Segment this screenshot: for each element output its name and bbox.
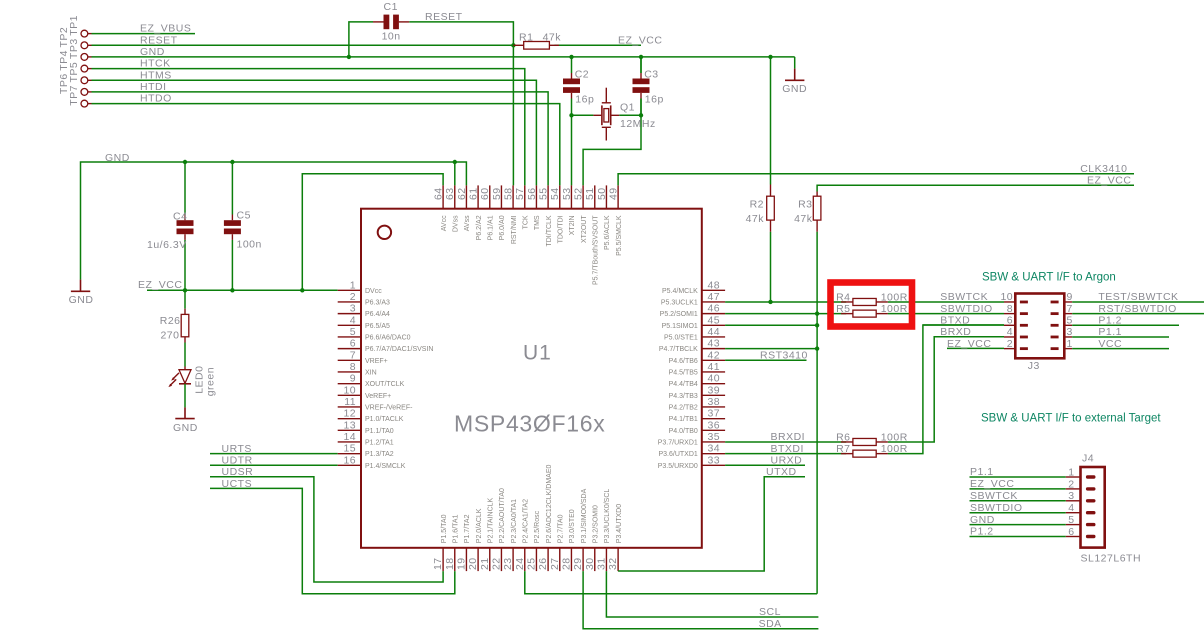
- wire R7 up to BTXD: [888, 325, 1004, 454]
- pin 10 (VeREF+): [338, 384, 392, 400]
- pin 59 (P6.0/A0): [491, 185, 506, 240]
- junction: [453, 160, 457, 164]
- pin 11 (VREF-/VeREF-): [338, 396, 413, 412]
- capacitor C4 1u/6.3V: [147, 162, 194, 290]
- svg-text:EZ_VCC: EZ_VCC: [1087, 175, 1131, 187]
- capacitor C1: [373, 1, 409, 43]
- highlight box (red): [831, 283, 913, 327]
- svg-text:SBWTCK: SBWTCK: [970, 490, 1018, 502]
- svg-text:P3.4/UTXD0: P3.4/UTXD0: [616, 504, 623, 543]
- svg-text:XIN: XIN: [365, 370, 377, 377]
- wire net UDSR to pin17: [210, 477, 443, 582]
- svg-text:P5.7/TBouth/SVSOUT: P5.7/TBouth/SVSOUT: [593, 215, 600, 285]
- svg-text:P6.2/A2: P6.2/A2: [476, 215, 483, 240]
- svg-text:P2.6/ADC12CLK/DMAE0: P2.6/ADC12CLK/DMAE0: [546, 465, 553, 544]
- svg-text:RESET: RESET: [425, 11, 463, 23]
- pin 24 (P2.4/CA1/TA2): [514, 499, 530, 571]
- svg-text:P2.2/CAOUT/TA0: P2.2/CAOUT/TA0: [499, 488, 506, 543]
- svg-text:39: 39: [708, 384, 720, 396]
- svg-text:12MHz: 12MHz: [620, 118, 656, 130]
- wire net P1.1: [1072, 336, 1169, 338]
- svg-text:C5: C5: [237, 209, 251, 221]
- wire pin43 row: [725, 348, 817, 350]
- junction: [511, 43, 515, 47]
- svg-text:P4.3/TB3: P4.3/TB3: [669, 393, 698, 400]
- svg-text:P6.0/A0: P6.0/A0: [499, 215, 506, 240]
- junction: [300, 288, 304, 292]
- svg-text:8: 8: [1007, 303, 1013, 315]
- pin 16 (P1.4/SMCLK): [338, 454, 406, 470]
- pin 46 (P5.2/SOMI1): [660, 303, 725, 319]
- pin 48 (P5.4/MCLK): [662, 279, 725, 295]
- svg-text:P3.2/SOMI0: P3.2/SOMI0: [593, 505, 600, 543]
- wire net RST/SBWTDIO: [1072, 313, 1204, 315]
- svg-text:19: 19: [455, 558, 467, 570]
- svg-text:HTCK: HTCK: [140, 58, 171, 70]
- pin 38 (P4.2/TB2): [669, 396, 725, 412]
- svg-text:EZ_VCC: EZ_VCC: [947, 338, 991, 350]
- junction: [768, 55, 772, 59]
- svg-text:P1.2: P1.2: [1098, 315, 1122, 327]
- svg-text:P4.1/TB1: P4.1/TB1: [669, 416, 698, 423]
- svg-text:6: 6: [1068, 526, 1074, 538]
- svg-text:16p: 16p: [575, 94, 594, 106]
- wire DVss branch pin63: [454, 162, 456, 185]
- svg-text:RESET: RESET: [140, 34, 178, 46]
- wire net SCL from pin31: [606, 571, 818, 617]
- svg-text:1: 1: [1068, 466, 1074, 478]
- wire LED to gnd: [184, 384, 186, 408]
- junction: [639, 55, 643, 59]
- wire net HTCK: [92, 69, 525, 186]
- svg-text:BRXDI: BRXDI: [771, 431, 806, 443]
- wire net P1.2: [970, 536, 1066, 538]
- svg-text:C2: C2: [575, 69, 589, 81]
- svg-text:EZ_VBUS: EZ_VBUS: [140, 23, 191, 35]
- svg-text:48: 48: [708, 279, 720, 291]
- svg-text:XT2IN: XT2IN: [569, 215, 576, 235]
- wire net RESET: [92, 44, 514, 46]
- resistor R1 47k: [513, 31, 561, 49]
- svg-text:4: 4: [1068, 502, 1074, 514]
- pin 12 (P1.0/TACLK): [338, 408, 404, 424]
- svg-text:MSP43ØF16x: MSP43ØF16x: [454, 411, 605, 437]
- wire net row pin: [725, 441, 846, 443]
- svg-text:XOUT/TCLK: XOUT/TCLK: [365, 381, 405, 388]
- svg-text:57: 57: [514, 188, 526, 200]
- svg-text:P1.2: P1.2: [970, 526, 994, 538]
- svg-text:P4.5/TB5: P4.5/TB5: [669, 370, 698, 377]
- wire net RESET (C1 to R1/pin58): [409, 22, 513, 186]
- svg-text:50: 50: [596, 188, 608, 200]
- svg-text:8: 8: [350, 361, 356, 373]
- svg-text:UTXD: UTXD: [766, 466, 797, 478]
- wire XT2IN pin53: [571, 115, 573, 185]
- wire net EZ_VCC J3: [947, 347, 1004, 349]
- svg-text:47k: 47k: [543, 31, 562, 43]
- svg-text:AVss: AVss: [464, 215, 471, 231]
- svg-text:1u/6.3V: 1u/6.3V: [147, 239, 187, 251]
- svg-text:47: 47: [708, 291, 720, 303]
- svg-text:U1: U1: [523, 342, 552, 365]
- svg-text:7: 7: [1067, 303, 1073, 315]
- svg-text:22: 22: [490, 558, 502, 570]
- svg-text:20: 20: [467, 558, 479, 570]
- pin 47 (P5.3UCLK1): [661, 291, 725, 307]
- pin 21 (P2.1/TAINCLK): [479, 497, 495, 571]
- pin 8 (XIN): [338, 361, 377, 377]
- testpoint TP5: [68, 62, 91, 84]
- pin 6 (P6.7/A7/DAC1/SVSIN): [338, 338, 434, 354]
- pin 50 (P5.6/ACLK): [596, 185, 611, 250]
- svg-text:9: 9: [350, 373, 356, 385]
- svg-text:P1.7/TA2: P1.7/TA2: [464, 514, 471, 543]
- svg-text:VCC: VCC: [1098, 338, 1122, 350]
- pin 27 (P2.7/TA0): [549, 514, 565, 571]
- svg-text:UDSR: UDSR: [222, 466, 254, 478]
- svg-text:58: 58: [503, 188, 515, 200]
- wire C1 left lead to GND rail: [349, 22, 373, 57]
- svg-text:URXD: URXD: [771, 455, 803, 467]
- resistor R2 47k: [746, 57, 775, 232]
- pin 44 (P5.0/STE1): [664, 326, 725, 342]
- testpoint TP2: [58, 27, 91, 49]
- svg-text:32: 32: [607, 558, 619, 570]
- wire net CLK3410 from pin49: [618, 174, 1134, 186]
- svg-text:GND: GND: [782, 83, 807, 95]
- svg-text:56: 56: [526, 188, 538, 200]
- svg-text:25: 25: [525, 558, 537, 570]
- svg-text:P1.1: P1.1: [970, 466, 994, 478]
- junction: [347, 55, 351, 59]
- svg-text:P1.1/TA0: P1.1/TA0: [365, 428, 394, 435]
- junction: [639, 113, 643, 117]
- svg-text:5: 5: [350, 326, 356, 338]
- svg-text:63: 63: [444, 188, 456, 200]
- svg-text:HTMS: HTMS: [140, 69, 172, 81]
- svg-text:30: 30: [584, 558, 596, 570]
- wire net TEST/SBWTCK: [1072, 301, 1204, 303]
- pin 55 (TDI/TCLK): [538, 185, 553, 246]
- capacitor C2 16p: [563, 57, 594, 115]
- pin 28 (P3.0/STE0): [560, 509, 576, 571]
- pin 32 (P3.4/UTXD0): [607, 504, 623, 571]
- wire XT2OUT to pin52: [583, 57, 641, 186]
- svg-text:31: 31: [595, 558, 607, 570]
- pin 42 (P4.6/TB6): [669, 349, 725, 365]
- pin 1 (DVcc): [338, 279, 383, 295]
- wire net HTDI: [92, 92, 549, 185]
- pin 58 (RST/NMI): [503, 185, 518, 244]
- svg-text:16p: 16p: [645, 94, 664, 106]
- svg-text:GND: GND: [69, 294, 94, 306]
- svg-text:16: 16: [344, 454, 356, 466]
- svg-text:60: 60: [479, 188, 491, 200]
- pin 14 (P1.2/TA1): [338, 431, 394, 447]
- wire net URTS to pin15: [210, 453, 338, 455]
- svg-text:P2.0/ACLK: P2.0/ACLK: [476, 508, 483, 543]
- wire net UDTR to pin16: [210, 464, 338, 466]
- svg-text:62: 62: [456, 188, 468, 200]
- svg-text:10n: 10n: [382, 30, 401, 42]
- svg-text:SBW & UART I/F to external Tar: SBW & UART I/F to external Target: [981, 413, 1161, 425]
- svg-text:SL127L6TH: SL127L6TH: [1081, 552, 1142, 564]
- pin 41 (P4.5/TB5): [669, 361, 725, 377]
- svg-text:41: 41: [708, 361, 720, 373]
- svg-text:C1: C1: [384, 1, 398, 13]
- pin 43 (P4.7/TBCLK): [659, 338, 725, 354]
- wire net P1.1: [970, 476, 1066, 478]
- svg-text:SBWTCK: SBWTCK: [940, 291, 988, 303]
- wire net VCC: [1072, 348, 1169, 350]
- pin 7 (VREF+): [338, 349, 388, 365]
- svg-text:TDO/TDI: TDO/TDI: [558, 215, 565, 243]
- svg-text:38: 38: [708, 396, 720, 408]
- pin 30 (P3.2/SOMI0): [584, 505, 600, 571]
- pin 23 (P2.3/CA0/TA1): [502, 499, 518, 571]
- testpoint TP7: [68, 85, 91, 107]
- capacitor C5 100n: [224, 162, 262, 290]
- wire net EZ_VCC: [970, 488, 1066, 490]
- svg-text:J3: J3: [1028, 360, 1040, 372]
- svg-text:R6: R6: [836, 431, 850, 443]
- wire net GND: [970, 524, 1066, 526]
- svg-text:34: 34: [708, 443, 720, 455]
- svg-text:15: 15: [344, 443, 356, 455]
- svg-text:6: 6: [350, 338, 356, 350]
- wire R6 up to BRXD: [888, 337, 1004, 442]
- wire net EZ_VCC right: [817, 185, 1134, 191]
- pin 18 (P1.6/TA1): [444, 514, 460, 571]
- junction: [569, 113, 573, 117]
- svg-text:EZ_VCC: EZ_VCC: [970, 478, 1014, 490]
- svg-text:AVcc: AVcc: [441, 215, 448, 231]
- svg-text:VREF-/VeREF-: VREF-/VeREF-: [365, 405, 413, 412]
- svg-text:P5.1SIMO1: P5.1SIMO1: [662, 323, 698, 330]
- svg-text:28: 28: [560, 558, 572, 570]
- svg-text:64: 64: [433, 188, 445, 200]
- wire net URXD: [725, 464, 805, 466]
- svg-text:2: 2: [1068, 478, 1074, 490]
- svg-text:11: 11: [344, 396, 356, 408]
- testpoint TP6: [58, 73, 91, 95]
- svg-text:P3.6/UTXD1: P3.6/UTXD1: [659, 451, 698, 458]
- resistor R5 100R: [836, 303, 908, 317]
- wire pin24 to SBWTDIO vertical: [525, 571, 817, 594]
- svg-text:7: 7: [350, 349, 356, 361]
- svg-text:P6.4/A4: P6.4/A4: [365, 311, 390, 318]
- svg-text:26: 26: [537, 558, 549, 570]
- svg-text:P1.2/TA1: P1.2/TA1: [365, 440, 394, 447]
- svg-text:P1.6/TA1: P1.6/TA1: [453, 514, 460, 543]
- junction: [183, 288, 187, 292]
- resistor R4 100R: [836, 291, 908, 305]
- wire R5 to J3 SBWTDIO: [888, 313, 1004, 315]
- svg-text:TCK: TCK: [523, 215, 530, 229]
- svg-text:P4.4/TB4: P4.4/TB4: [669, 381, 698, 388]
- svg-text:35: 35: [708, 431, 720, 443]
- wire net BRXD: [934, 336, 1004, 338]
- svg-text:P3.1/SIMO0/SDA: P3.1/SIMO0/SDA: [581, 488, 588, 543]
- wire net SBWTCK: [970, 500, 1066, 502]
- pin 54 (TDO/TDI): [549, 185, 564, 243]
- svg-text:9: 9: [1067, 291, 1073, 303]
- wire R3 bottom long vertical to pin24 row: [816, 232, 818, 594]
- svg-text:24: 24: [514, 558, 526, 570]
- svg-text:P2.3/CA0/TA1: P2.3/CA0/TA1: [511, 499, 518, 543]
- svg-text:green: green: [205, 367, 217, 396]
- svg-text:4: 4: [350, 314, 356, 326]
- svg-text:J4: J4: [1082, 452, 1094, 464]
- wire net RST3410: [725, 359, 806, 361]
- svg-text:P1.0/TACLK: P1.0/TACLK: [365, 416, 404, 423]
- wire AVcc branch (EZ_VCC to pin64): [302, 174, 443, 290]
- svg-text:RST/NMI: RST/NMI: [511, 215, 518, 244]
- svg-text:42: 42: [708, 349, 720, 361]
- pin 60 (P6.1/A1): [479, 185, 494, 240]
- wire net UCTS to pin18: [210, 488, 455, 593]
- svg-text:UDTR: UDTR: [222, 455, 253, 467]
- svg-text:R4: R4: [836, 291, 850, 303]
- pin 57 (TCK): [514, 185, 529, 229]
- wire R4 to J3 SBWTCK: [888, 301, 1004, 303]
- svg-text:GND: GND: [105, 152, 130, 164]
- svg-text:44: 44: [708, 326, 720, 338]
- svg-text:10: 10: [1001, 291, 1013, 303]
- svg-text:14: 14: [344, 431, 356, 443]
- wire R2 bottom to SBWTCK row: [770, 232, 772, 302]
- pin 3 (P6.4/A4): [338, 303, 390, 319]
- svg-text:GND: GND: [970, 514, 995, 526]
- wire R1 output to EZ_VCC: [554, 44, 641, 46]
- ground symbol top right: [782, 69, 807, 95]
- pin 49 (P5.5/SMCLK): [608, 185, 623, 255]
- wire net BTXD: [923, 324, 1004, 326]
- svg-text:12: 12: [344, 408, 356, 420]
- svg-text:BTXDI: BTXDI: [771, 443, 804, 455]
- svg-text:5: 5: [1068, 514, 1074, 526]
- svg-text:SCL: SCL: [759, 606, 781, 618]
- svg-text:21: 21: [479, 558, 491, 570]
- svg-text:6: 6: [1007, 315, 1013, 327]
- svg-text:TMS: TMS: [534, 215, 541, 230]
- svg-text:TEST/SBWTCK: TEST/SBWTCK: [1098, 291, 1178, 303]
- svg-text:EZ_VCC: EZ_VCC: [138, 279, 182, 291]
- pin 1 marker circle: [378, 226, 391, 239]
- pin 61 (P6.2/A2): [468, 185, 483, 240]
- svg-text:27: 27: [549, 558, 561, 570]
- svg-text:37: 37: [708, 408, 720, 420]
- wire GND rail left: [81, 162, 467, 280]
- svg-text:R1: R1: [519, 31, 533, 43]
- resistor R7 100R: [836, 443, 908, 457]
- svg-text:46: 46: [708, 303, 720, 315]
- connector J3: [1001, 291, 1073, 372]
- svg-text:P3.7/URXD1: P3.7/URXD1: [658, 440, 698, 447]
- svg-text:RST3410: RST3410: [760, 350, 808, 362]
- svg-text:40: 40: [708, 373, 720, 385]
- svg-text:49: 49: [608, 188, 620, 200]
- svg-text:1: 1: [1067, 338, 1073, 350]
- pin 22 (P2.2/CAOUT/TA0): [490, 488, 506, 571]
- pin 5 (P6.6/A6/DAC0): [338, 326, 411, 342]
- wire net row pin: [725, 453, 846, 455]
- wire net EZ_VCC left: [147, 289, 338, 291]
- svg-text:EZ_VCC: EZ_VCC: [618, 34, 662, 46]
- svg-text:53: 53: [561, 188, 573, 200]
- pin 40 (P4.4/TB4): [669, 373, 725, 389]
- svg-text:1: 1: [350, 279, 356, 291]
- svg-text:P4.7/TBCLK: P4.7/TBCLK: [659, 346, 698, 353]
- svg-text:59: 59: [491, 188, 503, 200]
- pin 64 (AVcc): [433, 185, 448, 231]
- svg-text:SDA: SDA: [759, 618, 782, 630]
- svg-text:P2.4/CA1/TA2: P2.4/CA1/TA2: [523, 499, 530, 543]
- pin 13 (P1.1/TA0): [338, 419, 394, 435]
- svg-text:100n: 100n: [237, 239, 262, 251]
- svg-text:BRXD: BRXD: [940, 326, 971, 338]
- pin 17 (P1.5/TA0): [432, 514, 448, 571]
- svg-text:270: 270: [160, 329, 179, 341]
- pin 39 (P4.3/TB3): [669, 384, 725, 400]
- svg-text:45: 45: [708, 314, 720, 326]
- junction: [815, 311, 819, 315]
- svg-text:VeREF+: VeREF+: [365, 393, 391, 400]
- junction: [230, 160, 234, 164]
- svg-text:61: 61: [468, 188, 480, 200]
- junction: [768, 300, 772, 304]
- svg-text:54: 54: [549, 188, 561, 200]
- wire net GND: [92, 56, 795, 58]
- svg-text:P6.5/A5: P6.5/A5: [365, 323, 390, 330]
- pin 19 (P1.7/TA2): [455, 514, 471, 571]
- svg-text:P5.5/SMCLK: P5.5/SMCLK: [616, 215, 623, 256]
- svg-text:R7: R7: [836, 443, 850, 455]
- wire net SBWTDIO: [970, 512, 1066, 514]
- svg-text:29: 29: [572, 558, 584, 570]
- wire net SDA from pin29: [583, 571, 818, 629]
- crystal Q1 12MHz: [593, 88, 655, 141]
- pin 37 (P4.1/TB1): [669, 408, 725, 424]
- junction: [230, 288, 234, 292]
- svg-text:36: 36: [708, 419, 720, 431]
- svg-text:P4.0/TB0: P4.0/TB0: [669, 428, 698, 435]
- pin 35 (P3.7/URXD1): [658, 431, 725, 447]
- pin 15 (P1.3/TA2): [338, 443, 394, 459]
- connector J4 SL127L6TH: [1066, 452, 1141, 564]
- resistor R6 100R: [836, 431, 908, 445]
- svg-text:P3.0/STE0: P3.0/STE0: [569, 509, 576, 543]
- svg-text:P2.1/TAINCLK: P2.1/TAINCLK: [488, 497, 495, 543]
- pin 52 (XT2OUT): [573, 185, 588, 243]
- testpoint TP4: [58, 50, 91, 72]
- svg-text:3: 3: [1068, 490, 1074, 502]
- pin 4 (P6.5/A5): [338, 314, 390, 330]
- pin 31 (P3.3/UCLK0/SCL): [595, 489, 611, 571]
- svg-text:P5.3UCLK1: P5.3UCLK1: [661, 300, 698, 307]
- junction: [815, 323, 819, 327]
- wire net HTDO: [92, 104, 560, 186]
- pin 20 (P2.0/ACLK): [467, 508, 483, 571]
- wire crystal row: [572, 114, 642, 116]
- wire net row pin: [725, 301, 846, 303]
- svg-text:SBWTDIO: SBWTDIO: [970, 502, 1023, 514]
- junction: [183, 160, 187, 164]
- svg-text:P6.1/A1: P6.1/A1: [488, 215, 495, 240]
- svg-text:P2.5/Rosc: P2.5/Rosc: [534, 510, 541, 543]
- svg-text:17: 17: [432, 558, 444, 570]
- pin 56 (TMS): [526, 185, 541, 230]
